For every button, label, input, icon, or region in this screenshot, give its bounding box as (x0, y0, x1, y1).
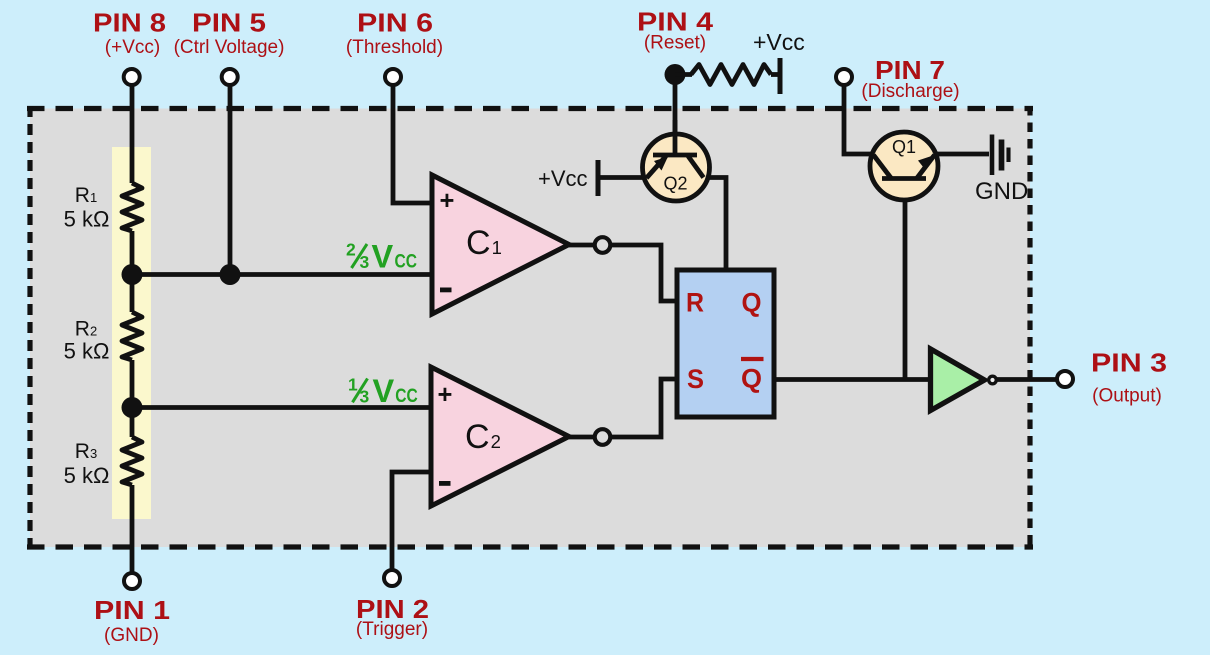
svg-text:Q: Q (741, 364, 762, 394)
svg-text:CC: CC (395, 386, 418, 407)
transistor Q1 (870, 132, 938, 200)
node C2 output bubble (595, 429, 611, 445)
node B junction dot (122, 397, 143, 418)
+Vcc rail bar (left of Q2) (596, 160, 601, 196)
node A junction dot (122, 264, 143, 285)
wire PIN7 to Q1 collector (844, 85, 874, 154)
wire node A to R2 (130, 275, 135, 312)
svg-text:PIN 5: PIN 5 (192, 8, 266, 38)
transistor Q2 (643, 120, 710, 201)
resistor reset pull-up (691, 65, 771, 85)
svg-text:PIN 8: PIN 8 (93, 8, 166, 38)
wire C1 output to bubble (569, 243, 594, 248)
wire PIN6 to C1 plus (393, 85, 432, 203)
svg-text:+Vcc: +Vcc (538, 166, 588, 191)
svg-text:(Ctrl Voltage): (Ctrl Voltage) (174, 37, 285, 58)
wire resistor to +Vcc rail (771, 72, 778, 77)
wire C2 output to bubble (569, 435, 594, 440)
svg-text:+: + (438, 381, 453, 409)
wire +Vcc bar to Q2 emitter (598, 175, 648, 180)
terminal PIN5 (222, 69, 238, 85)
wire 2/3 Vcc row (132, 272, 432, 277)
svg-text:CC: CC (395, 252, 418, 273)
comparator C1 (432, 175, 569, 314)
ground symbol (975, 135, 1028, 206)
terminal PIN2 (384, 570, 400, 586)
wire PIN4 dot to reset resistor (675, 72, 692, 77)
svg-text:(Threshold): (Threshold) (346, 37, 443, 58)
wire PIN4 vertical into Q2 (673, 75, 678, 156)
terminal PIN3 (1057, 371, 1073, 387)
wire Q1 emitter to GND (934, 152, 989, 157)
svg-text:2: 2 (346, 240, 356, 260)
wire Q2 collector to FF top (700, 178, 726, 273)
wire R2 to node B (130, 360, 135, 408)
label 1/3 Vcc (348, 373, 418, 409)
svg-text:PIN 3: PIN 3 (1091, 348, 1167, 378)
inverter output buffer (931, 349, 985, 411)
svg-text:PIN 6: PIN 6 (357, 8, 433, 38)
terminal PIN6 (385, 69, 401, 85)
wire 1/3 Vcc row (132, 405, 432, 410)
svg-text:Q1: Q1 (892, 137, 916, 157)
wire R3 to PIN1 (130, 485, 135, 573)
svg-text:5 kΩ: 5 kΩ (64, 463, 110, 488)
terminal PIN7 (836, 69, 852, 85)
+Vcc rail bar (top) (778, 58, 783, 94)
node PIN5 junction dot (220, 264, 241, 285)
node C1 output bubble (595, 237, 611, 253)
svg-text:(Reset): (Reset) (644, 33, 706, 54)
svg-text:R: R (686, 288, 704, 318)
svg-text:3: 3 (360, 386, 370, 406)
wire PIN5 vertical (228, 85, 233, 275)
node inverter bubble (989, 376, 997, 384)
resistor R1 (122, 183, 142, 231)
svg-text:1: 1 (348, 374, 358, 394)
svg-text:(+Vcc): (+Vcc) (105, 37, 160, 58)
svg-text:S: S (687, 364, 704, 394)
comparator C2 (431, 367, 569, 506)
svg-text:5 kΩ: 5 kΩ (64, 339, 110, 364)
svg-text:(Output): (Output) (1092, 386, 1162, 407)
resistor R3 (122, 437, 142, 485)
svg-text:V: V (372, 239, 394, 275)
terminal PIN1 (124, 573, 140, 589)
terminal PIN8 (124, 69, 140, 85)
wire inverter to PIN3 (996, 377, 1057, 382)
wire Q1 base down to output row (903, 180, 908, 379)
wire C2 bubble to FF S input (611, 379, 678, 437)
svg-text:V: V (373, 373, 395, 409)
wire PIN2 to C2 minus (392, 472, 432, 570)
svg-text:+Vcc: +Vcc (753, 29, 805, 55)
svg-text:(Discharge): (Discharge) (861, 81, 959, 102)
svg-text:Q: Q (742, 288, 762, 318)
svg-text:PIN 1: PIN 1 (94, 595, 170, 625)
IC body (grey dashed box) (27, 106, 1033, 550)
svg-text:3: 3 (360, 252, 370, 272)
node PIN4 dot (665, 64, 686, 85)
resistor R2 (122, 312, 142, 360)
wire R1 to node A (130, 231, 135, 275)
voltage divider highlight strip (112, 147, 151, 519)
svg-text:(GND): (GND) (104, 625, 159, 646)
svg-text:Q2: Q2 (663, 174, 687, 194)
svg-text:5 kΩ: 5 kΩ (64, 207, 110, 232)
wire node B to R3 (130, 408, 135, 437)
wire PIN8 vertical with resistor chain (130, 85, 135, 183)
wire Qbar row to inverter (774, 377, 932, 382)
label 2/3 Vcc (346, 239, 417, 275)
svg-text:+: + (440, 187, 455, 215)
wire C1 bubble to FF R input (611, 245, 678, 301)
svg-text:(Trigger): (Trigger) (356, 619, 428, 640)
svg-text:GND: GND (975, 178, 1028, 205)
SR flip-flop U1 (677, 270, 774, 417)
